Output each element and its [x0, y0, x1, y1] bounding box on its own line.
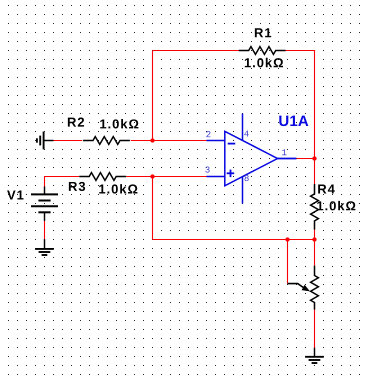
wire right vertical from top wire to output node [314, 51, 316, 159]
wire top feedback left segment [153, 50, 240, 52]
pin number 4 [244, 131, 248, 137]
junction node at R3 / bottom branch [150, 174, 154, 178]
label R2 [68, 118, 84, 127]
wire bottom node to potentiometer top [314, 240, 316, 266]
label R4 [318, 185, 335, 194]
wire ground to R2 [54, 140, 83, 142]
pin number 2 [206, 131, 210, 137]
junction node at R2 / feedback [150, 138, 154, 142]
wire top feedback right segment [286, 50, 316, 52]
potentiometer [288, 266, 319, 310]
pin 2 stub [207, 140, 225, 142]
ground below potentiometer [305, 348, 324, 363]
pin number 8 [244, 175, 248, 181]
resistor R4 (vertical) [311, 184, 319, 230]
resistor R3 [79, 173, 126, 181]
wire V1 minus to ground [44, 221, 46, 240]
wire left vertical from top wire down to R2 node [152, 51, 154, 141]
ground below V1 [35, 239, 54, 255]
pin number 1 [282, 149, 286, 155]
wire bottom horizontal [153, 239, 315, 241]
wire node A down left vertical [152, 177, 154, 240]
junction node wiper branch on bottom wire [285, 237, 289, 241]
battery source V1 [31, 187, 58, 221]
wire R4 to bottom node [314, 230, 316, 240]
resistor R1 [239, 47, 286, 55]
pin number 3 [205, 166, 209, 172]
pin 4 stub (top power) [242, 114, 244, 141]
non-inverting input plus sign [227, 172, 235, 174]
inverting input minus sign [228, 143, 236, 145]
ground at R2 input (rotated left) [37, 132, 54, 150]
label U1A [279, 116, 308, 126]
junction node at op-amp output [312, 156, 316, 160]
value R2 1.0kohm [100, 119, 138, 129]
label R1 [255, 28, 271, 37]
label R3 [69, 182, 85, 191]
pin 8 stub (bottom power) [242, 177, 244, 204]
op-amp U1A [207, 114, 297, 204]
wire op-amp output to right vertical [297, 158, 315, 160]
wire R3 to op-amp pin 3 [126, 176, 206, 178]
label V1 [7, 191, 23, 200]
wire V1 plus to R3 [45, 177, 80, 187]
value R3 1.0kohm [99, 184, 137, 194]
wire output node down to R4 [314, 159, 316, 185]
junction node R4 bottom on bottom wire [312, 237, 316, 241]
wire potentiometer bottom to ground [314, 310, 316, 348]
wire R2 to op-amp pin 2 [131, 140, 207, 142]
value R4 1.0kohm [317, 201, 355, 211]
resistor R2 [83, 137, 130, 145]
pin 3 stub [207, 176, 225, 178]
pin 1 output stub [278, 158, 297, 160]
wire wiper branch vertical [287, 240, 289, 284]
value R1 1.0kohm [245, 58, 283, 68]
